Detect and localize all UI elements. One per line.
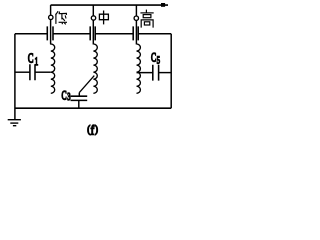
wire L-high tap to C5 [137, 72, 153, 74]
terminal block (top-right output tab) [161, 3, 165, 7]
wire right border [170, 34, 172, 108]
terminal circle (high band) [134, 16, 138, 20]
capacitor C1 [30, 64, 35, 80]
terminal circle (low band) [49, 15, 53, 19]
svg-text:C: C [28, 51, 34, 65]
wire left border [14, 34, 16, 120]
wire top bus [51, 4, 168, 6]
svg-text:): ) [95, 124, 98, 136]
coupling capacitor (mid band, series in bus) [90, 26, 95, 40]
coupling capacitor (high band, series in bus) [133, 26, 138, 40]
label 低 (low) [56, 11, 67, 24]
svg-text:1: 1 [35, 55, 39, 68]
wire bottom bus [15, 107, 171, 109]
inductor L-mid [93, 44, 97, 93]
ground [8, 120, 21, 126]
svg-text:5: 5 [157, 54, 161, 66]
inductor L-low [51, 44, 55, 93]
label 中 (middle) [99, 11, 108, 25]
wire from top bus down to low-band terminal [50, 5, 52, 15]
svg-text:C: C [62, 90, 67, 103]
switch wiper (slanted wire to L-mid) [79, 76, 94, 93]
capacitor C3 (plates) [71, 96, 88, 100]
wire from top bus down to mid-band terminal [92, 5, 94, 16]
wire C3 top stub [78, 93, 80, 97]
wire C1 to L-low tap [35, 71, 51, 73]
wire mid terminal down through capacitor gap to coil [92, 20, 94, 44]
svg-text:C: C [151, 52, 156, 65]
svg-text:f: f [91, 123, 95, 138]
wire main horizontal bus segments [15, 33, 171, 35]
wire low terminal down through capacitor gap to coil [50, 20, 52, 45]
terminal circle (mid band) [91, 16, 95, 20]
wire left border to C1 [15, 71, 30, 73]
svg-text:(: ( [87, 124, 90, 136]
wire C5 to right border [159, 72, 172, 74]
svg-text:3: 3 [67, 91, 71, 103]
inductor L-high [137, 44, 141, 93]
label 高 (high) [140, 10, 153, 28]
wire high terminal down through capacitor gap to coil [135, 20, 137, 44]
capacitor C5 [153, 65, 159, 81]
wire C3 bottom stub to bottom bus [78, 100, 80, 108]
coupling capacitor (low band, series in bus) [47, 26, 53, 40]
wire from top bus down to high-band terminal [135, 5, 137, 16]
